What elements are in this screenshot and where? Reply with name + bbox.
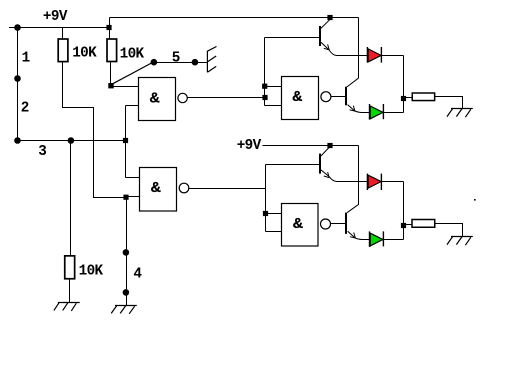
NAND gate U3 <box>282 77 331 120</box>
wire R2 bottom lead <box>110 62 112 86</box>
wire node 5 horizontal <box>154 62 208 64</box>
switch lever node5 <box>112 62 153 84</box>
junction square NAND1 out join <box>262 95 267 100</box>
svg-text:4: 4 <box>133 266 142 282</box>
junction square LED node upper <box>401 96 406 101</box>
wire NAND1 output <box>187 97 264 99</box>
wire node to R5 <box>404 224 413 226</box>
resistor R2 10K <box>107 39 117 62</box>
wire NAND2 input B <box>126 196 140 198</box>
wire +9V top rail <box>9 27 109 29</box>
svg-text:10K: 10K <box>72 46 97 62</box>
node dot left rail mid <box>14 75 21 82</box>
svg-text:&: & <box>149 90 160 106</box>
node dot 4 top <box>123 249 130 256</box>
wire R1 bottom lead chain to NAND2 input B <box>63 62 126 198</box>
junction square NAND3 inA <box>262 84 267 89</box>
ground G1 under R3 <box>54 303 80 311</box>
node dot 5 right <box>192 59 199 66</box>
wire Q4 base from NAND4 bubble <box>331 223 346 225</box>
wire R1 top lead <box>62 28 64 40</box>
LED D4 green <box>370 231 384 247</box>
node dot left rail bottom <box>14 137 21 144</box>
wire Q2 base from NAND3 bubble <box>331 96 346 98</box>
wire rail drop right upper <box>358 18 360 79</box>
wire NAND3 input A <box>265 86 282 88</box>
wire NAND4 input B <box>266 231 282 233</box>
transistor Q3 <box>320 147 367 182</box>
svg-text:&: & <box>293 216 304 232</box>
wire NAND1 input A <box>111 86 139 88</box>
svg-text:&: & <box>292 89 303 105</box>
wire green LED1 output <box>383 112 403 114</box>
ground G4 right lower <box>447 237 473 246</box>
LED D3 red <box>367 174 381 190</box>
resistor R3 10K <box>65 256 75 279</box>
junction squares <box>106 15 475 228</box>
wire vertical x=125.8 input B to wire3 to NAND2 input A <box>125 106 127 178</box>
wire R5 to ground <box>435 224 463 237</box>
transistor Q4 <box>346 205 370 240</box>
svg-text:+9V: +9V <box>43 9 68 25</box>
svg-text:&: & <box>151 180 162 196</box>
junction square wire3/inputB <box>123 138 128 143</box>
LED D1 red <box>367 47 381 63</box>
wire left rail node1-2-3 <box>17 28 19 141</box>
wire 3 horizontal <box>18 140 126 142</box>
node dot 5 left <box>151 59 158 66</box>
wire Q3 base <box>266 164 320 166</box>
svg-text:10K: 10K <box>120 46 145 62</box>
wire NAND1 input B <box>126 105 139 107</box>
NAND gate U1 <box>139 78 188 121</box>
wire mid vertical lower (NAND4 inputs) <box>265 165 267 232</box>
svg-text:1: 1 <box>22 51 30 67</box>
wire node to R4 <box>404 97 413 99</box>
wire top rail upper (y=17.7) <box>110 17 359 19</box>
wire vertical LED node upper <box>403 56 405 113</box>
resistor R5 <box>412 220 435 228</box>
wire rail drop right lower <box>358 146 360 205</box>
resistor R1 10K <box>58 39 68 62</box>
transistor Q1 <box>320 19 367 55</box>
wire from node3 down to R3 <box>70 141 72 256</box>
ground G2 under node4 <box>111 306 137 314</box>
wire vertical LED node lower <box>403 182 405 240</box>
junction square LED node lower <box>401 223 406 228</box>
wire node 4 vertical <box>126 198 128 306</box>
stray dot <box>474 199 476 201</box>
node dot 4 bottom <box>123 289 130 296</box>
wire green LED2 output <box>383 239 403 241</box>
LED D2 green <box>370 104 384 120</box>
ground G3 right upper <box>447 109 473 118</box>
chassis ground node5 <box>207 47 216 73</box>
wire +9V mid rail <box>263 145 359 147</box>
junction square NAND4 inA <box>263 211 268 216</box>
wire Q1 base <box>265 37 320 39</box>
wire R3 bottom lead <box>69 280 71 303</box>
junction square Q3 collector rail <box>327 143 332 148</box>
junction square Q1 collector rail <box>327 15 332 20</box>
wire R2 top lead and jog <box>109 18 111 40</box>
wire red LED2 output to node <box>381 181 403 183</box>
junction square rail jog <box>106 25 111 30</box>
wire NAND4 input A <box>266 213 282 215</box>
NAND gate U4 <box>282 204 331 247</box>
NAND gate U2 <box>140 168 189 212</box>
resistor R4 <box>412 93 434 101</box>
svg-text:+9V: +9V <box>237 138 262 154</box>
junction dots round <box>14 24 198 296</box>
wire NAND3 input B <box>265 105 282 107</box>
svg-text:10K: 10K <box>79 264 104 280</box>
wire R4 to ground <box>435 97 463 109</box>
svg-text:2: 2 <box>21 101 29 117</box>
transistor Q2 <box>346 78 370 112</box>
junction square switch common <box>108 83 113 88</box>
wire mid vertical upper (Q1 base / NAND3 inputs) <box>264 38 266 106</box>
wire NAND2 output <box>189 188 266 190</box>
node dot left rail top <box>14 24 21 31</box>
wire red LED1 output to node <box>381 55 403 57</box>
svg-text:3: 3 <box>38 144 46 160</box>
svg-text:5: 5 <box>172 50 180 66</box>
node dot wire3 <box>68 137 75 144</box>
wire NAND2 input A <box>126 177 140 179</box>
junction square NAND2 inputB <box>123 195 128 200</box>
